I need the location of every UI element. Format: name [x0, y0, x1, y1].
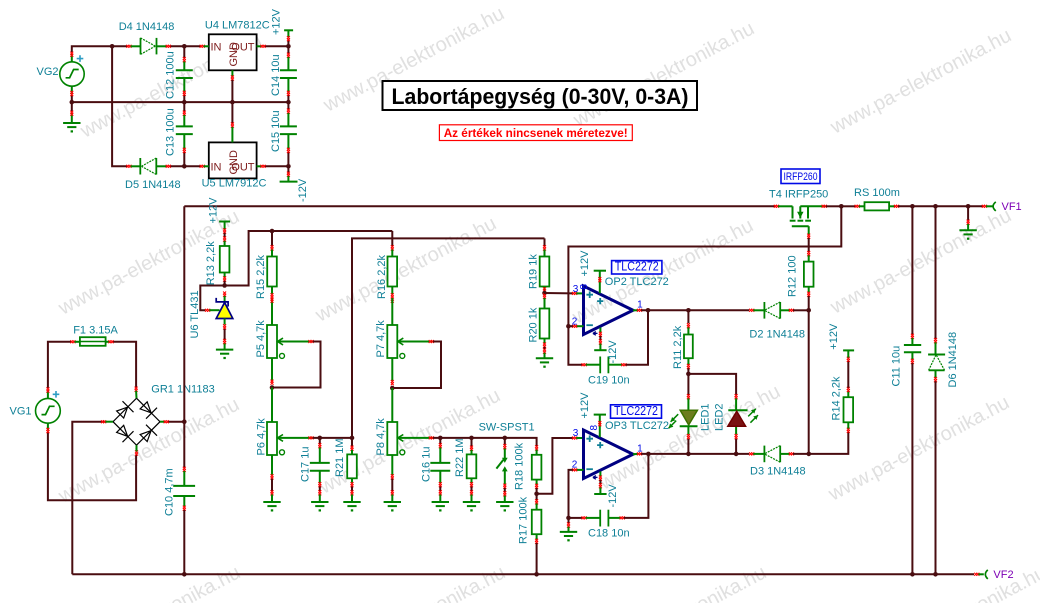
svg-text:D5 1N4148: D5 1N4148 [125, 179, 181, 191]
svg-text:R15 2,2k: R15 2,2k [255, 254, 267, 299]
svg-text:P7 4,7k: P7 4,7k [375, 320, 387, 358]
svg-text:C13 100u: C13 100u [165, 108, 177, 156]
svg-text:D3 1N4148: D3 1N4148 [750, 466, 806, 478]
svg-text:R18 100k: R18 100k [513, 442, 525, 490]
svg-text:OP3 TLC272: OP3 TLC272 [605, 420, 669, 432]
svg-text:P5 4,7k: P5 4,7k [255, 320, 267, 358]
svg-text:GND: GND [228, 42, 240, 67]
svg-text:RS 100m: RS 100m [854, 187, 900, 199]
svg-text:C11 10u: C11 10u [891, 346, 903, 387]
svg-text:C12 100u: C12 100u [165, 51, 177, 99]
svg-text:D2 1N4148: D2 1N4148 [749, 329, 805, 341]
svg-text:T4 IRFP250: T4 IRFP250 [769, 189, 828, 201]
svg-text:-12V: -12V [297, 178, 309, 202]
svg-text:+12V: +12V [579, 392, 591, 419]
svg-text:R12 100: R12 100 [787, 255, 799, 297]
svg-text:GND: GND [228, 150, 240, 175]
svg-text:TLC2272: TLC2272 [615, 260, 659, 274]
svg-text:IN: IN [211, 162, 222, 174]
svg-text:OP2 TLC272: OP2 TLC272 [605, 276, 669, 288]
svg-text:Az értékek nincsenek méretezve: Az értékek nincsenek méretezve! [444, 126, 628, 140]
svg-text:R19 1k: R19 1k [528, 254, 540, 289]
svg-text:F1 3.15A: F1 3.15A [73, 325, 118, 337]
svg-text:-12V: -12V [607, 340, 619, 364]
svg-text:R11 2,2k: R11 2,2k [672, 325, 684, 369]
svg-text:3: 3 [573, 428, 579, 439]
svg-text:R17 100k: R17 100k [518, 496, 530, 544]
svg-text:C19 10n: C19 10n [588, 375, 630, 387]
svg-text:VF2: VF2 [993, 569, 1013, 581]
svg-text:Labortápegység (0-30V, 0-3A): Labortápegység (0-30V, 0-3A) [392, 84, 689, 109]
svg-text:3: 3 [573, 284, 579, 295]
svg-text:8: 8 [589, 425, 600, 431]
svg-text:GR1 1N1183: GR1 1N1183 [151, 384, 214, 396]
svg-text:D4 1N4148: D4 1N4148 [119, 21, 175, 33]
svg-text:+12V: +12V [579, 250, 591, 277]
svg-text:TLC2272: TLC2272 [614, 404, 658, 418]
svg-text:IN: IN [211, 42, 222, 54]
svg-text:LED1: LED1 [700, 403, 712, 431]
svg-text:C16 1u: C16 1u [420, 447, 432, 482]
svg-text:2: 2 [572, 460, 578, 471]
svg-text:D6 1N4148: D6 1N4148 [947, 332, 959, 388]
svg-text:U4 LM7812C: U4 LM7812C [205, 20, 270, 32]
svg-text:+12V: +12V [828, 323, 840, 350]
svg-text:R20 1k: R20 1k [528, 307, 540, 342]
svg-text:P6 4,7k: P6 4,7k [256, 418, 268, 456]
svg-text:R22 1M: R22 1M [454, 438, 466, 477]
svg-text:C15 10u: C15 10u [270, 110, 282, 152]
svg-text:C14 10u: C14 10u [270, 54, 282, 96]
svg-text:+12V: +12V [208, 197, 220, 224]
svg-text:R16 2,2k: R16 2,2k [376, 254, 388, 299]
svg-text:1: 1 [637, 300, 643, 311]
svg-text:P8 4,7k: P8 4,7k [375, 418, 387, 456]
svg-text:VG1: VG1 [9, 406, 31, 418]
svg-text:-12V: -12V [607, 484, 619, 508]
svg-text:8: 8 [579, 284, 590, 290]
svg-text:C18 10n: C18 10n [588, 528, 630, 540]
svg-text:1: 1 [637, 443, 643, 454]
svg-text:+12V: +12V [271, 8, 283, 35]
svg-text:U6 TL431: U6 TL431 [189, 290, 201, 338]
svg-text:R13 2,2k: R13 2,2k [205, 241, 217, 286]
svg-text:2: 2 [572, 316, 578, 327]
svg-text:C17 1u: C17 1u [300, 447, 312, 482]
svg-text:U5 LM7912C: U5 LM7912C [202, 178, 267, 190]
svg-text:VF1: VF1 [1002, 201, 1022, 213]
svg-text:LED2: LED2 [714, 403, 726, 431]
svg-text:R21 1M: R21 1M [334, 438, 346, 477]
svg-text:IRFP260: IRFP260 [784, 171, 818, 183]
svg-text:SW-SPST1: SW-SPST1 [479, 422, 535, 434]
svg-text:VG2: VG2 [36, 66, 58, 78]
svg-text:C10 4,7m: C10 4,7m [164, 468, 176, 516]
svg-text:R14 2,2k: R14 2,2k [831, 376, 843, 421]
